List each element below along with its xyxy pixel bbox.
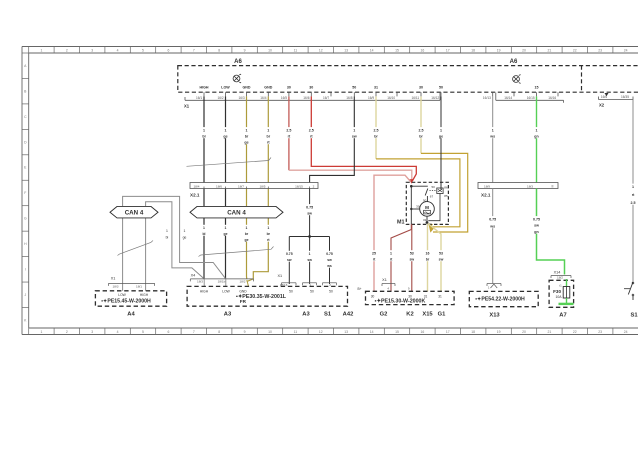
pin 16/7 — [323, 92, 331, 100]
svg-text:0.75: 0.75 — [489, 218, 496, 222]
pin 16/2 — [217, 86, 230, 101]
fuse box A7 — [549, 280, 574, 307]
switch S1 bottom right — [628, 282, 633, 295]
svg-text:7: 7 — [193, 330, 195, 334]
svg-text:18/15: 18/15 — [295, 184, 303, 188]
svg-text:ge: ge — [224, 232, 228, 236]
svg-text:sw: sw — [439, 258, 444, 262]
svg-text:13: 13 — [344, 330, 348, 334]
svg-text:16/2: 16/2 — [217, 96, 223, 100]
svg-text:▪✦PE15.45-W-2000H: ▪✦PE15.45-W-2000H — [101, 299, 151, 305]
twist line upper — [187, 158, 272, 167]
svg-text:br: br — [245, 135, 249, 139]
svg-text:3: 3 — [91, 48, 93, 52]
pin 16/10 — [387, 92, 397, 100]
svg-text:sw: sw — [534, 224, 539, 228]
svg-text:sw: sw — [307, 258, 312, 262]
svg-text:0.75: 0.75 — [533, 218, 540, 222]
svg-text:18/9: 18/9 — [484, 184, 490, 188]
svg-text:16/13: 16/13 — [483, 96, 491, 100]
svg-text:21: 21 — [548, 48, 552, 52]
svg-text:LOW: LOW — [221, 86, 230, 90]
svg-text:1: 1 — [492, 129, 494, 133]
CAN 4 bus symbol 2 — [190, 206, 283, 218]
svg-text:FR: FR — [240, 299, 247, 304]
lamp icon left inside A6 — [233, 74, 241, 83]
svg-text:4: 4 — [117, 48, 119, 52]
svg-text:15: 15 — [395, 330, 399, 334]
left ruler letters — [22, 52, 29, 54]
svg-text:14: 14 — [370, 48, 374, 52]
svg-text:67: 67 — [430, 195, 434, 199]
svg-text:X13: X13 — [489, 312, 500, 318]
svg-text:5: 5 — [142, 48, 144, 52]
twist line A4 pair — [118, 241, 154, 256]
svg-text:16/14: 16/14 — [504, 96, 512, 100]
wire 53 sw pin31 to G1 — [428, 224, 441, 292]
wire to pin 1 — [309, 237, 311, 285]
wire to pin 2 — [329, 237, 331, 285]
svg-text:16/16: 16/16 — [548, 96, 556, 100]
node M1 pin 31 — [426, 221, 429, 224]
connector caret above X13 — [487, 283, 501, 285]
svg-text:1: 1 — [246, 226, 248, 230]
svg-text:50: 50 — [439, 86, 443, 90]
svg-text:1: 1 — [267, 129, 269, 133]
svg-text:18/3: 18/3 — [197, 279, 203, 283]
svg-text:K2: K2 — [406, 312, 413, 318]
svg-text:12: 12 — [319, 330, 323, 334]
svg-text:bl: bl — [166, 236, 169, 240]
pin 16/5 — [281, 86, 291, 101]
svg-text:A7: A7 — [559, 312, 566, 318]
wire 0.75 sw from X2.1 18/15 — [309, 189, 311, 237]
svg-text:18/4: 18/4 — [193, 184, 199, 188]
svg-text:X1: X1 — [184, 104, 190, 109]
module A3 dashed box — [187, 286, 347, 306]
svg-text:sw: sw — [327, 258, 332, 262]
svg-text:19: 19 — [497, 48, 501, 52]
svg-text:ge: ge — [244, 141, 248, 145]
svg-text:1: 1 — [166, 229, 168, 233]
svg-text:2: 2 — [66, 330, 68, 334]
connector bracket X1 — [185, 99, 440, 101]
svg-text:30: 30 — [309, 86, 313, 90]
svg-text:5: 5 — [142, 330, 144, 334]
connector X2.1 right strip — [478, 183, 558, 189]
svg-text:1: 1 — [246, 129, 248, 133]
svg-text:2: 2 — [313, 184, 315, 188]
svg-text:ge: ge — [245, 238, 249, 242]
svg-text:1: 1 — [353, 129, 355, 133]
wire 16/4 br/rt to X4 GND — [247, 96, 268, 281]
svg-text:16: 16 — [421, 330, 425, 334]
svg-text:16: 16 — [426, 252, 430, 256]
svg-text:17: 17 — [446, 48, 450, 52]
connector X2 top right — [599, 99, 634, 101]
wire X2 16/35 to switch S1 — [632, 100, 634, 283]
border frame outer — [22, 46, 638, 48]
pin 16/1 — [196, 86, 209, 101]
svg-text:31: 31 — [374, 86, 378, 90]
svg-text:16/10: 16/10 — [387, 96, 395, 100]
svg-text:X2.1: X2.1 — [190, 193, 200, 198]
svg-text:1: 1 — [440, 129, 442, 133]
svg-text:16/12: 16/12 — [431, 96, 439, 100]
wire 1 rt to K2 via X1 — [391, 224, 411, 291]
svg-text:7: 7 — [193, 48, 195, 52]
svg-text:2.5: 2.5 — [374, 129, 379, 133]
svg-text:gn: gn — [534, 230, 538, 234]
svg-text:53: 53 — [439, 252, 443, 256]
svg-text:bl: bl — [202, 135, 205, 139]
svg-text:F30: F30 — [553, 289, 561, 294]
svg-text:sw: sw — [409, 258, 414, 262]
svg-text:16/6: 16/6 — [303, 96, 309, 100]
svg-text:1: 1 — [40, 48, 42, 52]
svg-text:1: 1 — [184, 229, 186, 233]
svg-text:LOW: LOW — [118, 293, 126, 297]
svg-text:ge: ge — [223, 135, 227, 139]
svg-text:1: 1 — [632, 185, 634, 189]
svg-text:20: 20 — [522, 330, 526, 334]
svg-text:30: 30 — [419, 86, 423, 90]
svg-text:X1: X1 — [111, 277, 116, 281]
svg-text:13: 13 — [344, 48, 348, 52]
wire 16/8 1 sw to X2.1 pin 18/15 — [310, 96, 355, 182]
svg-text:GND: GND — [264, 86, 272, 90]
svg-text:85: 85 — [444, 194, 448, 198]
svg-text:4: 4 — [117, 330, 119, 334]
svg-text:50: 50 — [310, 290, 314, 294]
svg-text:X15: X15 — [422, 312, 433, 318]
ground module A4 dashed box — [95, 291, 166, 306]
svg-text:23: 23 — [598, 330, 602, 334]
svg-text:G2: G2 — [380, 312, 388, 318]
svg-text:I: I — [25, 268, 26, 272]
svg-text:▪✦PE54.22-W-2000H: ▪✦PE54.22-W-2000H — [475, 297, 525, 303]
svg-text:X2.1: X2.1 — [481, 193, 491, 198]
svg-text:sw: sw — [287, 258, 292, 262]
svg-text:F: F — [24, 191, 26, 195]
wire A4 HIGH to X4 via crossover — [146, 202, 205, 284]
svg-text:18/3: 18/3 — [112, 284, 118, 288]
svg-text:10: 10 — [268, 330, 272, 334]
svg-text:X14: X14 — [554, 270, 561, 274]
CAN 4 bus symbol 1 — [110, 206, 158, 218]
svg-text:22: 22 — [573, 330, 577, 334]
svg-text:6: 6 — [167, 48, 169, 52]
svg-text:X2: X2 — [599, 102, 605, 107]
pin 16/11 — [411, 86, 423, 101]
svg-text:1: 1 — [225, 226, 227, 230]
svg-text:50: 50 — [329, 290, 333, 294]
wire 16/15 1 gn to X2.1 right — [536, 96, 538, 182]
svg-text:9: 9 — [244, 330, 246, 334]
svg-text:18/2: 18/2 — [239, 279, 245, 283]
svg-text:0.75: 0.75 — [286, 252, 293, 256]
wire labels below CAN4 — [201, 225, 207, 236]
svg-text:20: 20 — [522, 48, 526, 52]
svg-text:23: 23 — [598, 48, 602, 52]
A6 box divider 2 — [581, 66, 583, 93]
node M1 junction 30 — [410, 185, 413, 188]
lamp icon right inside A6 — [513, 75, 521, 84]
pin 16/4 — [260, 86, 272, 101]
svg-text:15: 15 — [395, 48, 399, 52]
svg-text:16/9: 16/9 — [368, 96, 374, 100]
wire 16/2 sw to X2.1 pin 18/6 and X4 LOW — [225, 96, 227, 279]
svg-text:A42: A42 — [343, 312, 354, 318]
svg-text:21: 21 — [548, 330, 552, 334]
svg-text:31: 31 — [438, 295, 442, 299]
module X13 dashed box — [469, 291, 538, 306]
svg-text:ws: ws — [326, 264, 332, 268]
svg-text:HIGH: HIGH — [200, 290, 209, 294]
svg-text:11: 11 — [294, 330, 298, 334]
svg-text:sw: sw — [307, 212, 312, 216]
svg-text:1: 1 — [309, 252, 311, 256]
relay element 86/85 — [430, 190, 437, 192]
svg-text:16/8: 16/8 — [346, 96, 352, 100]
svg-text:16/15: 16/15 — [527, 96, 535, 100]
svg-text:A6: A6 — [234, 59, 242, 65]
svg-text:18/1: 18/1 — [136, 284, 142, 288]
svg-text:16/5: 16/5 — [281, 96, 287, 100]
svg-text:30: 30 — [287, 86, 291, 90]
svg-text:18/1b: 18/1b — [218, 279, 226, 283]
svg-text:ge: ge — [183, 236, 187, 240]
svg-text:ws: ws — [489, 135, 495, 139]
motor symbol M — [420, 202, 435, 217]
fuse F30 — [566, 279, 568, 287]
svg-text:50: 50 — [289, 290, 293, 294]
wire 16/11 2.5 br loop to M1 pin 31 — [420, 96, 422, 153]
svg-text:18/3: 18/3 — [527, 184, 533, 188]
svg-text:86: 86 — [444, 186, 448, 190]
svg-text:t1: t1 — [559, 283, 562, 287]
svg-text:50: 50 — [352, 86, 356, 90]
pin 16/3 — [238, 86, 250, 101]
node splice junction — [308, 235, 311, 238]
svg-text:2: 2 — [66, 48, 68, 52]
red arrowhead into M1 junction — [409, 179, 413, 184]
svg-text:S1: S1 — [630, 312, 638, 318]
svg-text:1: 1 — [40, 330, 42, 334]
svg-text:X1: X1 — [278, 274, 283, 278]
svg-text:J: J — [24, 293, 26, 297]
wire stubs into A4 box — [122, 283, 124, 290]
pin 16/15 — [527, 86, 539, 101]
svg-text:8: 8 — [218, 48, 220, 52]
wire 53 sw M1 to K2 — [411, 224, 413, 291]
svg-text:M: M — [425, 205, 429, 210]
svg-text:1: 1 — [225, 129, 227, 133]
wire A4 LOW to X4 via crossover — [123, 196, 226, 283]
module PE15.30 dashed box (G2/K2/X15/G1) — [366, 291, 455, 304]
svg-text:A3: A3 — [302, 312, 310, 318]
svg-text:1: 1 — [203, 129, 205, 133]
svg-text:G: G — [24, 217, 27, 221]
starter motor M1 dashed box — [406, 182, 448, 224]
svg-text:A6: A6 — [510, 59, 518, 65]
svg-text:gn: gn — [534, 135, 538, 139]
svg-text:24: 24 — [624, 48, 628, 52]
svg-text:16/11: 16/11 — [411, 96, 419, 100]
svg-text:30: 30 — [416, 205, 420, 209]
pin 16/8 — [346, 86, 356, 101]
svg-text:0.75: 0.75 — [306, 206, 313, 210]
svg-text:A4: A4 — [127, 312, 135, 318]
wire 0.75 ws to X13 — [492, 189, 494, 284]
svg-text:16/35: 16/35 — [621, 95, 629, 99]
svg-text:HIGH: HIGH — [140, 293, 149, 297]
svg-text:2.5: 2.5 — [419, 129, 424, 133]
svg-text:ge: ge — [439, 135, 443, 139]
svg-text:12: 12 — [319, 48, 323, 52]
svg-text:0.75: 0.75 — [326, 252, 333, 256]
svg-text:9: 9 — [244, 48, 246, 52]
svg-text:A3: A3 — [224, 312, 232, 318]
connector bracket right section — [496, 99, 564, 101]
svg-text:10A: 10A — [555, 295, 562, 299]
wire split horizontal — [289, 236, 329, 238]
wire 25 rt B+ branch to G2 — [374, 175, 411, 291]
twist line lower CAN pair — [199, 247, 274, 257]
X2 pin marker triangle — [605, 93, 609, 96]
svg-text:11: 11 — [294, 48, 298, 52]
svg-text:HIGH: HIGH — [200, 86, 209, 90]
svg-text:53: 53 — [410, 252, 414, 256]
svg-text:22: 22 — [573, 48, 577, 52]
svg-text:CAN 4: CAN 4 — [227, 210, 246, 217]
wire 16/1 sw to X2.1 pin 18/4 and X4 HIGH — [203, 96, 205, 279]
svg-text:16: 16 — [421, 48, 425, 52]
svg-text:X1: X1 — [382, 278, 387, 282]
svg-text:LOW: LOW — [222, 290, 230, 294]
svg-text:15: 15 — [535, 86, 539, 90]
svg-text:bl: bl — [202, 232, 205, 236]
wire 16 br pin31 to X15 — [427, 224, 429, 291]
wire 16/12 1 ge to relay in M1 — [440, 96, 442, 189]
svg-text:18/6: 18/6 — [216, 184, 222, 188]
wire relay to pin 31 — [428, 194, 440, 221]
wire to pin 18/16 — [288, 237, 290, 285]
svg-text:ws: ws — [489, 225, 495, 229]
svg-text:6: 6 — [167, 330, 169, 334]
svg-text:2.5: 2.5 — [286, 129, 291, 133]
pin 16/12 — [431, 86, 443, 101]
svg-text:M1: M1 — [397, 220, 405, 226]
svg-text:24: 24 — [624, 330, 628, 334]
M1 internal wiring — [411, 185, 428, 187]
svg-text:18: 18 — [471, 48, 475, 52]
svg-text:sw: sw — [352, 135, 357, 139]
svg-text:16/4: 16/4 — [260, 96, 266, 100]
pin 16/14 — [504, 92, 514, 100]
svg-text:18/5: 18/5 — [259, 184, 265, 188]
svg-text:br: br — [419, 135, 423, 139]
svg-text:S1: S1 — [324, 312, 332, 318]
svg-text:II: II — [552, 185, 554, 189]
pin 16/16 — [548, 92, 558, 100]
pin 16/6 — [303, 86, 313, 101]
svg-text:2.5: 2.5 — [309, 129, 314, 133]
gold arrowheads into M1 pin 31 — [428, 223, 433, 227]
svg-text:16/3: 16/3 — [238, 96, 244, 100]
svg-text:br: br — [374, 135, 378, 139]
svg-text:16/1: 16/1 — [196, 96, 202, 100]
svg-text:1: 1 — [267, 226, 269, 230]
svg-text:2: 2 — [329, 283, 331, 287]
wire 16/9 2.5 br loop to M1 pin 31 — [375, 96, 377, 158]
pin 16/13 — [483, 92, 493, 100]
svg-text:3: 3 — [91, 330, 93, 334]
ruler tick marks and numbers — [28, 47, 30, 54]
svg-text:18/7: 18/7 — [238, 184, 244, 188]
svg-text:50: 50 — [432, 185, 436, 189]
svg-text:1: 1 — [536, 129, 538, 133]
svg-text:18: 18 — [471, 330, 475, 334]
svg-text:▪✦PE15.30-W-2000K: ▪✦PE15.30-W-2000K — [375, 298, 426, 304]
svg-text:GND: GND — [243, 86, 251, 90]
svg-text:17: 17 — [446, 330, 450, 334]
control unit A6 dashed box — [178, 66, 638, 93]
border frame inner — [29, 52, 638, 54]
svg-text:8: 8 — [218, 330, 220, 334]
svg-text:2.5: 2.5 — [631, 201, 636, 205]
svg-text:14: 14 — [370, 330, 374, 334]
wire 0.75 sw gn to fuse F30 — [537, 189, 565, 275]
svg-text:10: 10 — [268, 48, 272, 52]
wire stubs into A3 box — [203, 279, 205, 287]
svg-text:16/7: 16/7 — [323, 96, 329, 100]
svg-text:1: 1 — [390, 252, 392, 256]
svg-text:br: br — [267, 135, 271, 139]
connector X2.1 left strip — [190, 183, 318, 189]
svg-text:G1: G1 — [438, 312, 447, 318]
svg-text:X4: X4 — [191, 274, 196, 278]
svg-text:B+: B+ — [358, 287, 362, 291]
wire 16/5 2.5 rt to M1 junction — [288, 96, 290, 170]
wire 16/3 br/ge to X4 GND — [246, 96, 248, 279]
svg-text:25: 25 — [372, 252, 376, 256]
svg-text:1: 1 — [203, 226, 205, 230]
wire 16/6 2.5 rt to M1 junction — [311, 96, 416, 181]
svg-text:CAN 4: CAN 4 — [125, 210, 144, 217]
wire 16/13 1 ws to X2.1 right — [492, 96, 494, 182]
svg-text:19: 19 — [497, 330, 501, 334]
svg-text:18/2: 18/2 — [557, 276, 563, 280]
pin 16/9 — [368, 86, 378, 101]
